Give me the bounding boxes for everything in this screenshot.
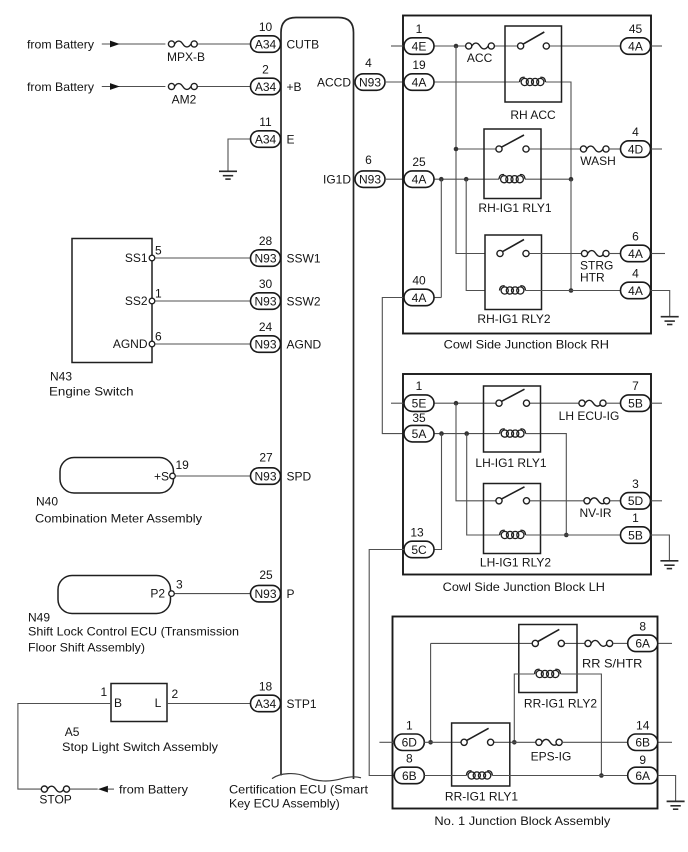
svg-text:1: 1: [416, 379, 423, 393]
svg-text:1: 1: [416, 22, 423, 36]
svg-text:4A: 4A: [628, 247, 643, 261]
wire LH RLY2 switch to NV-IR fuse: [530, 500, 584, 502]
svg-text:6B: 6B: [635, 736, 650, 750]
svg-text:2: 2: [172, 687, 179, 701]
svg-text:1: 1: [406, 718, 413, 732]
svg-text:5: 5: [155, 243, 162, 257]
svg-text:4E: 4E: [412, 39, 427, 53]
relay RR-IG1 RLY1 coil: [468, 772, 475, 779]
svg-text:RH ACC: RH ACC: [510, 108, 556, 122]
svg-text:4A: 4A: [412, 291, 427, 305]
wire stub 6D: [379, 741, 394, 743]
wire RR RLY1 coil to 6A pin 9: [492, 775, 627, 777]
relay LH-IG1 RLY1 switch contact: [502, 389, 525, 401]
junction node 5A row left: [439, 431, 444, 436]
relay RR-IG1 RLY2 box: [519, 625, 577, 693]
svg-text:14: 14: [636, 718, 650, 732]
junction node 5E row: [454, 401, 459, 406]
wire stub 4E: [391, 45, 404, 47]
connector 6A pin 9: [628, 767, 658, 784]
connector 4A pin 4: [621, 282, 651, 299]
svg-text:STOP: STOP: [39, 792, 71, 806]
svg-text:RH-IG1 RLY2: RH-IG1 RLY2: [477, 312, 550, 326]
connector 4A pin 40: [404, 289, 434, 306]
svg-text:N93: N93: [254, 469, 276, 483]
connector N93 pin 6 (IG1D): [355, 171, 385, 188]
wire A5 B down to STOP fuse: [18, 704, 111, 790]
connector N93 pin 25 (P): [251, 585, 281, 602]
svg-text:5A: 5A: [412, 427, 427, 441]
svg-text:2: 2: [262, 63, 269, 77]
wire stub 5D: [651, 500, 663, 502]
svg-text:B: B: [114, 696, 122, 710]
wire 6D to RR RLY1 switch: [424, 741, 461, 743]
junction node coil row mid: [464, 177, 469, 182]
svg-text:A34: A34: [255, 132, 277, 146]
wire 5C riser: [434, 434, 442, 550]
svg-text:Cowl Side Junction Block RH: Cowl Side Junction Block RH: [444, 337, 609, 351]
wire 4A pin 19 to RH ACC coil: [434, 81, 520, 83]
svg-text:11: 11: [259, 115, 272, 129]
svg-text:N93: N93: [254, 251, 276, 265]
svg-text:P2: P2: [150, 587, 165, 601]
svg-text:4A: 4A: [412, 75, 427, 89]
svg-text:N40: N40: [36, 494, 58, 508]
junction node EPS row: [512, 740, 517, 745]
wire stub 5E: [391, 402, 404, 404]
connector A34 pin 10 (CUTB): [251, 36, 281, 53]
svg-text:25: 25: [259, 568, 273, 582]
connector 5A pin 35: [404, 425, 434, 442]
relay RH-IG1 RLY2 switch contact: [503, 240, 524, 252]
svg-text:1: 1: [632, 511, 639, 525]
svg-text:SS2: SS2: [125, 294, 148, 308]
pin terminal SS2: [149, 298, 155, 304]
wire stub 4A pin 45: [651, 45, 663, 47]
svg-text:Certification ECU (Smart: Certification ECU (Smart: [229, 783, 369, 797]
pin terminal SS1: [149, 255, 155, 261]
svg-text:8: 8: [639, 619, 646, 633]
connector 4A pin 6: [621, 245, 651, 262]
wire 6A pin 9 to ground: [658, 776, 676, 802]
wire 4E junction down to relays: [456, 46, 485, 254]
svg-text:4: 4: [365, 56, 372, 70]
relay RH-IG1 RLY1 box: [484, 129, 541, 199]
svg-text:N93: N93: [254, 294, 276, 308]
wire RR RLY2 coil left down: [514, 674, 534, 742]
wire STRG HTR to 4A pin 6: [609, 253, 620, 255]
svg-text:RR-IG1 RLY1: RR-IG1 RLY1: [445, 789, 518, 803]
svg-text:+S: +S: [154, 469, 169, 483]
wire EPS-IG to 6B pin 14: [562, 741, 628, 743]
junction node RLY2 coil right: [569, 288, 574, 293]
connector 4D pin 4: [621, 141, 651, 158]
svg-text:SSW1: SSW1: [287, 251, 321, 265]
wire stub 5B pin 7: [651, 402, 663, 404]
svg-text:L: L: [155, 696, 162, 710]
svg-text:40: 40: [412, 274, 426, 288]
connector N93 pin 27 (SPD): [251, 468, 281, 485]
wire 4A pin 40 to 5A pin 35: [382, 298, 404, 434]
connector 5D pin 3: [621, 493, 651, 510]
wire stub 6A pin 8: [658, 642, 672, 644]
wire RR RLY2 switch feed: [431, 642, 533, 644]
relay RH-IG1 RLY2 coil: [501, 287, 508, 294]
connector 4A pin 19: [404, 74, 434, 91]
arrow battery feed 1: [110, 41, 120, 48]
fuse EPS-IG: [542, 739, 558, 745]
wire 5E to LH RLY1 switch: [434, 402, 496, 404]
connector 5B pin 1: [621, 527, 651, 544]
svg-text:+B: +B: [287, 80, 302, 94]
wire RLY2 coil to 4A pin 4: [526, 290, 621, 292]
svg-text:6: 6: [632, 230, 639, 244]
junction node 5A row mid: [464, 431, 469, 436]
wire 4A pin 25 to RLY1 coil: [434, 178, 499, 180]
relay RR-IG1 RLY2 switch contact: [538, 629, 559, 641]
connector A34 pin 11 (E): [251, 131, 281, 148]
wire 5B pin 1 to ground: [651, 535, 670, 561]
svg-text:N43: N43: [50, 369, 72, 383]
svg-text:4: 4: [632, 267, 639, 281]
connector 6A pin 8: [628, 635, 658, 652]
svg-text:6A: 6A: [635, 769, 650, 783]
connector N93 pin 28 (SSW1): [251, 250, 281, 266]
connector N93 pin 24 (AGND): [251, 336, 281, 353]
svg-text:Combination Meter Assembly: Combination Meter Assembly: [35, 511, 202, 525]
fuse LH ECU-IG: [585, 400, 601, 406]
svg-text:3: 3: [176, 577, 183, 591]
svg-text:18: 18: [259, 680, 273, 694]
svg-text:from Battery: from Battery: [27, 80, 94, 94]
relay RH ACC coil: [521, 78, 528, 85]
svg-text:9: 9: [639, 753, 646, 767]
arrow battery feed 3: [98, 786, 108, 793]
svg-text:4D: 4D: [628, 142, 644, 156]
svg-text:27: 27: [259, 451, 273, 465]
wire 4A pin 4 to ground: [651, 291, 670, 317]
svg-text:LH ECU-IG: LH ECU-IG: [559, 409, 620, 423]
svg-text:from Battery: from Battery: [27, 37, 94, 51]
svg-text:E: E: [287, 132, 295, 146]
wire 5E junction down to LH RLY2: [456, 403, 496, 501]
relay LH-IG1 RLY1 box: [484, 386, 541, 452]
svg-text:19: 19: [176, 458, 190, 472]
svg-text:6D: 6D: [402, 736, 418, 750]
svg-text:RR-IG1 RLY2: RR-IG1 RLY2: [524, 696, 597, 710]
svg-text:N93: N93: [359, 75, 381, 89]
relay LH-IG1 RLY2 coil: [501, 531, 508, 538]
ground G2 (block RH): [661, 316, 679, 318]
svg-text:10: 10: [259, 20, 273, 34]
svg-text:SPD: SPD: [287, 469, 312, 483]
svg-text:N49: N49: [28, 610, 50, 624]
wire LH RLY2 coil to 5B pin 1: [526, 534, 621, 536]
junction block No.1 outline: [393, 617, 658, 809]
svg-text:AGND: AGND: [113, 337, 148, 351]
fuse STOP: [48, 786, 64, 792]
svg-text:1: 1: [101, 685, 108, 699]
ground G3 (block LH): [660, 560, 678, 562]
stop light switch A5 box: [111, 684, 167, 722]
svg-text:4A: 4A: [628, 39, 643, 53]
svg-text:8: 8: [406, 752, 413, 766]
wire RH ACC switch to 4A pin 45: [549, 45, 620, 47]
relay RH ACC switch contact: [523, 32, 544, 44]
wire E pin to ground: [228, 139, 251, 171]
svg-text:19: 19: [412, 58, 426, 72]
svg-text:5B: 5B: [628, 397, 643, 411]
svg-text:A34: A34: [255, 80, 277, 94]
fuse AM2: [175, 84, 191, 90]
shift lock ECU N49 box: [58, 576, 171, 614]
relay RH-IG1 RLY1 switch contact: [502, 135, 524, 147]
svg-text:No. 1 Junction Block Assembly: No. 1 Junction Block Assembly: [434, 814, 610, 828]
svg-text:N93: N93: [254, 587, 276, 601]
svg-text:P: P: [287, 587, 295, 601]
relay RR-IG1 RLY1 switch contact: [467, 728, 489, 740]
svg-text:ACCD: ACCD: [317, 75, 351, 89]
svg-text:25: 25: [412, 155, 426, 169]
wire IG1D to 4A pin 25: [385, 178, 404, 180]
wire stub 6B pin 14: [658, 741, 672, 743]
svg-text:6: 6: [365, 153, 372, 167]
ECU U1 Certification ECU (Smart Key ECU Assembly) outline: [281, 18, 354, 780]
svg-text:7: 7: [632, 379, 639, 393]
svg-text:SSW2: SSW2: [287, 294, 321, 308]
wire STOP fuse to battery arrow: [70, 788, 98, 790]
svg-text:Engine Switch: Engine Switch: [49, 385, 134, 399]
fuse WASH: [587, 146, 603, 152]
wire RLY2 coil riser: [466, 179, 485, 290]
wire SS1 to N93 pin 28: [155, 257, 251, 259]
junction block RH outline: [403, 16, 651, 334]
connector 4A pin 45: [621, 38, 651, 55]
svg-text:4: 4: [632, 125, 639, 139]
relay LH-IG1 RLY1 coil: [501, 430, 508, 437]
svg-text:LH-IG1 RLY1: LH-IG1 RLY1: [475, 456, 546, 470]
wire 6B pin 8 to RR RLY1 coil: [424, 775, 466, 777]
svg-text:NV-IR: NV-IR: [579, 506, 611, 520]
wire ACCD to 4A pin 19: [385, 81, 404, 83]
svg-text:5D: 5D: [628, 494, 644, 508]
svg-text:RR S/HTR: RR S/HTR: [582, 656, 643, 670]
svg-text:A34: A34: [255, 697, 277, 711]
wire RLY2 switch to STRG HTR fuse: [529, 253, 581, 255]
svg-text:from Battery: from Battery: [119, 782, 188, 796]
connector 6D pin 1: [394, 734, 424, 751]
svg-text:1: 1: [155, 286, 162, 300]
pin terminal AGND: [149, 341, 155, 347]
connector N93 pin 4 (ACCD): [355, 74, 385, 91]
svg-text:Floor Shift Assembly): Floor Shift Assembly): [28, 640, 145, 654]
svg-text:5B: 5B: [628, 528, 643, 542]
svg-text:MPX-B: MPX-B: [167, 50, 205, 64]
relay RH-IG1 RLY2 box: [485, 235, 542, 310]
wire RR RLY2 switch to RR S/HTR: [564, 642, 585, 644]
ECU torn bottom edge: [272, 774, 361, 781]
wire +S to N93 pin 27: [175, 475, 251, 477]
svg-text:30: 30: [259, 277, 273, 291]
wire from battery to A34 pin 10: [102, 43, 166, 45]
wire LH RLY2 coil riser: [467, 434, 500, 535]
svg-text:CUTB: CUTB: [287, 37, 320, 51]
arrow battery feed 2: [110, 83, 120, 90]
junction node LH coil out: [564, 533, 569, 538]
wire stub 4D: [651, 148, 663, 150]
svg-text:A34: A34: [255, 37, 277, 51]
wire AGND to N93 pin 24: [155, 343, 251, 345]
svg-text:Stop Light Switch Assembly: Stop Light Switch Assembly: [62, 740, 218, 754]
svg-text:WASH: WASH: [580, 154, 616, 168]
svg-text:6B: 6B: [402, 769, 417, 783]
engine switch N43 box: [72, 239, 152, 363]
svg-text:EPS-IG: EPS-IG: [531, 749, 572, 763]
svg-text:Key ECU Assembly): Key ECU Assembly): [229, 796, 340, 810]
svg-text:6A: 6A: [635, 637, 650, 651]
fuse MPX-B: [175, 41, 191, 47]
connector 4A pin 25: [404, 171, 434, 188]
svg-text:SS1: SS1: [125, 251, 148, 265]
svg-text:Shift Lock Control ECU (Transm: Shift Lock Control ECU (Transmission: [28, 625, 239, 639]
svg-text:3: 3: [632, 477, 639, 491]
junction node 4E row: [454, 44, 459, 49]
junction node 6A-9 row: [599, 773, 604, 778]
svg-text:N93: N93: [254, 337, 276, 351]
wire RLY1 switch row: [456, 148, 496, 150]
junction block LH outline: [403, 374, 651, 575]
fuse STRG HTR: [588, 251, 604, 257]
svg-text:45: 45: [629, 22, 643, 36]
wire P2 to N93 pin 25: [174, 593, 251, 595]
fuse RR S/HTR: [591, 640, 607, 646]
connector 6B pin 8: [394, 767, 424, 784]
svg-text:5C: 5C: [411, 543, 427, 557]
wire RR RLY2 coil right down: [561, 674, 602, 776]
junction node 6D row: [428, 740, 433, 745]
pin terminal P2: [169, 591, 175, 597]
wire 5C to 6B pin 8: [369, 550, 404, 776]
connector 4E pin 1: [404, 38, 434, 55]
connector 5B pin 7: [621, 395, 651, 412]
junction node coil row left: [439, 177, 444, 182]
relay LH-IG1 RLY2 box: [484, 484, 541, 554]
wire 4A pin 40 riser: [434, 297, 441, 299]
connector 5C pin 13: [404, 541, 434, 558]
wire 4E to relay RH ACC: [434, 45, 466, 47]
wire 5A pin 35 to LH RLY1 coil: [434, 433, 500, 435]
svg-text:4A: 4A: [412, 173, 427, 187]
junction node coil row right: [569, 177, 574, 182]
connector N93 pin 30 (SSW2): [251, 293, 281, 310]
svg-text:5E: 5E: [412, 397, 427, 411]
pin terminal +S: [170, 473, 176, 479]
svg-text:4A: 4A: [628, 284, 643, 298]
svg-text:AM2: AM2: [172, 92, 197, 106]
svg-text:35: 35: [412, 411, 426, 425]
svg-text:24: 24: [259, 320, 273, 334]
wire SS2 to N93 pin 30: [155, 300, 251, 302]
relay RR-IG1 RLY1 box: [452, 723, 510, 786]
relay RH ACC box: [505, 26, 562, 102]
relay RH-IG1 RLY1 coil: [501, 176, 508, 183]
fuse NV-IR: [590, 498, 606, 504]
svg-text:6: 6: [155, 329, 162, 343]
relay RR-IG1 RLY2 coil: [536, 670, 543, 677]
svg-text:28: 28: [259, 234, 273, 248]
relay LH-IG1 RLY2 switch contact: [502, 487, 525, 499]
connector 5E pin 1: [404, 395, 434, 412]
svg-text:AGND: AGND: [287, 337, 322, 351]
svg-text:A5: A5: [65, 725, 80, 739]
svg-text:13: 13: [410, 526, 424, 540]
wire from battery to A34 pin 2: [102, 86, 166, 88]
svg-text:HTR: HTR: [580, 270, 605, 284]
ground G1 (E pin): [219, 170, 237, 172]
svg-text:STP1: STP1: [287, 697, 317, 711]
junction node RLY1 switch: [454, 147, 459, 152]
wire RR S/HTR to 6A pin 8: [613, 642, 628, 644]
svg-text:LH-IG1 RLY2: LH-IG1 RLY2: [480, 555, 551, 569]
svg-text:ACC: ACC: [467, 51, 493, 65]
wire LH ECU-IG to 5B pin 7: [606, 402, 620, 404]
svg-text:IG1D: IG1D: [323, 173, 351, 187]
ground G4 (block No.1): [667, 800, 685, 802]
wire RH ACC coil feed down: [570, 179, 572, 290]
fuse ACC: [472, 43, 488, 49]
wire A5 L to A34 pin 18: [167, 703, 251, 705]
wire WASH to 4D pin 4: [609, 148, 620, 150]
wire stub 4A pin 6: [651, 253, 666, 255]
svg-text:Cowl Side Junction Block LH: Cowl Side Junction Block LH: [443, 580, 605, 594]
wire NV-IR to 5D pin 3: [610, 500, 621, 502]
connector A34 pin 18 (STP1): [251, 695, 281, 712]
connector 6B pin 14: [628, 734, 658, 751]
svg-text:RH-IG1 RLY1: RH-IG1 RLY1: [478, 201, 551, 215]
svg-text:N93: N93: [359, 173, 381, 187]
wire LH RLY1 coil out down: [541, 434, 567, 535]
connector A34 pin 2 (+B): [251, 78, 281, 95]
combination meter N40 box: [60, 458, 174, 494]
